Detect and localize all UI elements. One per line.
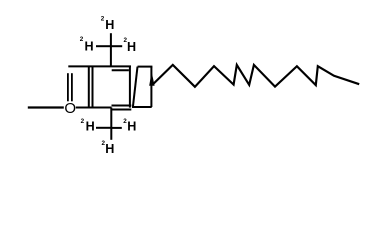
svg-text:H: H bbox=[85, 40, 94, 54]
right ring top edge bbox=[138, 66, 153, 68]
top CD3 right C-H bond bbox=[111, 45, 122, 47]
right ring bottom edge bbox=[132, 106, 152, 108]
right ring right edge bbox=[150, 67, 152, 107]
top CD3 left C-H bond bbox=[96, 45, 111, 47]
ring fusion double bond line 1 bbox=[88, 66, 90, 107]
top CD3 stem bond bbox=[110, 33, 112, 66]
svg-text:H: H bbox=[127, 120, 136, 134]
bottom edge double bond upper line bbox=[112, 105, 132, 107]
bottom CD3 right C-H bond bbox=[111, 127, 122, 129]
bottom edge double bond lower line bbox=[112, 109, 132, 111]
bond CH3-O (left methyl) bbox=[28, 106, 64, 108]
svg-text:H: H bbox=[105, 142, 114, 156]
bond ring to O (bottom-left edge) bbox=[76, 107, 112, 109]
wedge bond at stereocenter bbox=[149, 72, 154, 86]
top edge inner double bond line bbox=[112, 69, 129, 71]
svg-text:H: H bbox=[105, 18, 114, 32]
svg-text:O: O bbox=[64, 100, 76, 117]
svg-text:2: 2 bbox=[80, 36, 84, 43]
double bond above O (left ring edge) line 1 bbox=[67, 73, 69, 101]
svg-text:2: 2 bbox=[81, 118, 85, 125]
svg-text:H: H bbox=[127, 40, 136, 54]
double bond above O (left ring edge) line 2 bbox=[71, 73, 73, 101]
ring top edge bbox=[68, 65, 131, 67]
ring right edge (benzene) bbox=[129, 66, 131, 107]
svg-text:2: 2 bbox=[101, 16, 105, 23]
ring fusion double bond line 2 bbox=[92, 66, 94, 107]
right ring left edge (slanted) bbox=[133, 67, 138, 107]
bottom CD3 stem bond bbox=[110, 108, 112, 140]
bottom CD3 left C-H bond bbox=[96, 127, 111, 129]
svg-text:H: H bbox=[86, 120, 95, 134]
alkyl chain polyline bbox=[152, 65, 359, 87]
